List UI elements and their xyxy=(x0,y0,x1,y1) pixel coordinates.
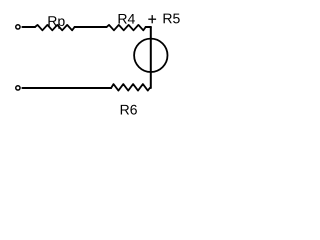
label R4 xyxy=(119,14,135,24)
wire vertical through source R5 xyxy=(150,27,152,88)
wire top-left xyxy=(22,26,35,28)
terminal top-left xyxy=(16,25,20,29)
wire from R4 to top corner xyxy=(146,26,151,28)
resistor Rp xyxy=(35,25,75,30)
wire bottom xyxy=(22,87,111,89)
source R5 (circle) xyxy=(134,39,167,72)
label R6 xyxy=(121,105,137,115)
wire between Rp and R4 xyxy=(75,26,107,28)
resistor R4 xyxy=(107,25,146,30)
resistor R6 xyxy=(111,84,150,91)
polarity + of source R5 xyxy=(148,15,156,23)
terminal bottom-left xyxy=(16,86,20,90)
label Rp xyxy=(48,16,64,29)
label R5 xyxy=(164,14,180,24)
